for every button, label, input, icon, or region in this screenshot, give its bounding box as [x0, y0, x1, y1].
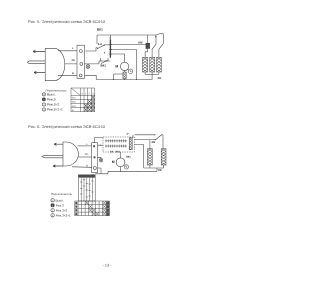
svg-text:L: L — [86, 143, 88, 146]
svg-text:L: L — [72, 47, 74, 50]
svg-text:t°: t° — [127, 132, 129, 136]
svg-text:ЕК: ЕК — [158, 76, 162, 80]
svg-text:3-А: 3-А — [98, 43, 102, 46]
svg-text:Реж.3: Реж.3 — [47, 98, 56, 102]
svg-text:ЕК2: ЕК2 — [72, 101, 77, 104]
svg-text:1: 1 — [85, 93, 87, 96]
svg-text:Переключатель: Переключатель — [51, 192, 73, 196]
svg-text:- 13 -: - 13 - — [103, 263, 113, 267]
svg-text:БК1: БК1 — [97, 28, 103, 32]
svg-text:КМ: КМ — [152, 141, 156, 144]
svg-text:БК: БК — [110, 150, 114, 153]
svg-text:Выкл.: Выкл. — [56, 199, 64, 203]
svg-text:Реж.3+2: Реж.3+2 — [47, 103, 59, 107]
svg-text:0: 0 — [81, 93, 83, 96]
svg-text:М: М — [112, 160, 115, 164]
svg-text:ВК1: ВК1 — [116, 150, 121, 153]
svg-text:М: М — [72, 109, 74, 112]
svg-text:N: N — [72, 72, 74, 75]
svg-text:Реж.3+2+1: Реж.3+2+1 — [47, 108, 63, 112]
svg-text:ЕК: ЕК — [158, 168, 162, 172]
svg-text:ЕК1: ЕК1 — [72, 97, 77, 100]
svg-text:Выкл.: Выкл. — [47, 93, 56, 97]
svg-text:ВК1: ВК1 — [126, 155, 131, 158]
svg-text:PE: PE — [85, 153, 89, 156]
svg-text:КМ: КМ — [138, 40, 143, 44]
svg-text:М: М — [115, 65, 118, 69]
svg-text:Реж.3+2: Реж.3+2 — [56, 209, 68, 213]
svg-text:2: 2 — [104, 52, 106, 55]
svg-text:3: 3 — [92, 93, 94, 96]
svg-text:2: 2 — [89, 93, 91, 96]
svg-text:3: 3 — [109, 37, 111, 40]
svg-text:БК1: БК1 — [101, 63, 107, 67]
svg-text:Рис. 5. Электрическая схема ЭС: Рис. 5. Электрическая схема ЭСВ-6С4-Ш — [28, 19, 105, 24]
svg-text:Реж.3: Реж.3 — [56, 204, 64, 208]
svg-text:PE: PE — [72, 59, 76, 62]
svg-text:Реж.3+2+1: Реж.3+2+1 — [56, 214, 71, 218]
svg-text:Рис. 6. Электрическая схема ЭС: Рис. 6. Электрическая схема ЭСВ-6С4-Ш — [28, 124, 105, 129]
svg-text:ЕК3: ЕК3 — [72, 105, 77, 108]
